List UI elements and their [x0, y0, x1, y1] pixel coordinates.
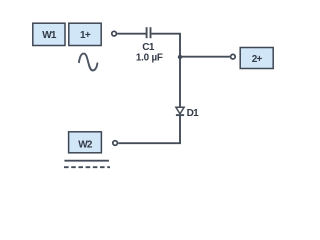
capacitor C1 plates: [147, 27, 151, 38]
terminal box 2+: [240, 48, 273, 69]
ground symbol dashed line: [64, 166, 110, 168]
svg-text:1+: 1+: [80, 30, 91, 41]
wire: diode cathode down to bottom corner: [179, 115, 181, 144]
svg-text:D1: D1: [187, 108, 200, 119]
diode D1 triangle: [176, 107, 184, 114]
wire: bottom horizontal to terminal node 3: [118, 142, 181, 144]
AC source sine symbol: [79, 54, 97, 71]
svg-text:1.0 µF: 1.0 µF: [136, 52, 163, 63]
terminal box W1: [33, 23, 65, 45]
terminal box 1+: [69, 23, 101, 45]
terminal box W2: [69, 132, 102, 153]
ground symbol solid line: [64, 160, 109, 162]
svg-text:2+: 2+: [252, 54, 263, 65]
wire: junction to terminal node 2: [180, 56, 230, 58]
junction node (solder dot): [178, 55, 182, 59]
diode D1 cathode bar: [176, 114, 184, 116]
wire: junction down to diode anode: [179, 57, 181, 108]
wire: node1 to C1 left plate: [117, 33, 146, 35]
terminal node 3 (open circle): [113, 141, 118, 146]
terminal node 1 (open circle): [112, 31, 117, 36]
svg-text:W2: W2: [78, 139, 93, 150]
wire: vertical from corner down to junction: [179, 33, 181, 57]
svg-text:W1: W1: [42, 30, 57, 41]
wire: C1 right plate to top-right corner: [151, 33, 180, 35]
terminal node 2 (open circle): [231, 54, 236, 59]
svg-text:C1: C1: [142, 42, 155, 53]
